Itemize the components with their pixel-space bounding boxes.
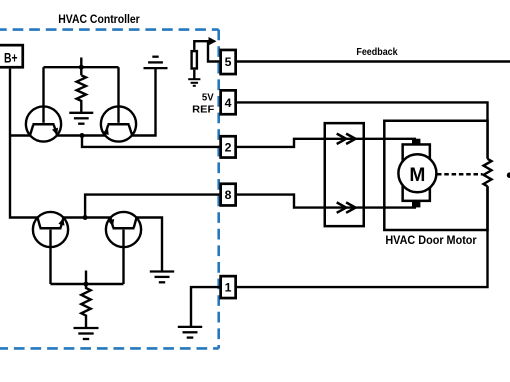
wire pin 2 to connector upper: [237, 139, 324, 147]
svg-text:REF: REF: [192, 104, 214, 115]
wire pin 8 to connector lower: [237, 195, 324, 208]
svg-text:4: 4: [225, 96, 232, 110]
wire R2 top to arrow: [194, 41, 211, 50]
wire Q4 emitter to ground G4: [137, 218, 163, 272]
node bottom rail junction: [84, 282, 89, 287]
wire Q1-Q2 emitter rail middle segment: [57, 134, 105, 136]
transistor Q2 (upper right): [101, 67, 136, 141]
potentiometer R3 (feedback position sensor): [484, 159, 492, 186]
pin 2: [221, 136, 236, 157]
node wiper stub at edge: [507, 172, 510, 178]
transistor Q4 (lower right): [106, 212, 141, 284]
HVAC Door Motor outer box: [384, 121, 487, 230]
resistor R4 (base pull-down): [81, 284, 90, 328]
wire B+ rail down-left and to lower transistors: [10, 69, 38, 218]
wire lower rail between Q3 and Q4: [64, 216, 111, 218]
wire potentiometer bottom to pin 1: [237, 186, 488, 287]
wire junction to pin 2: [82, 136, 219, 147]
ground G5 under R4: [74, 328, 99, 339]
wire Feedback line: [237, 60, 510, 62]
node lower rail junction: [83, 215, 88, 220]
resistor R1 (base bleed resistor): [77, 75, 86, 113]
wire B+ branch to Q1 emitter-collector rail: [10, 134, 30, 136]
node emitter-rail junction to pin 2: [80, 133, 85, 138]
pin 4: [221, 90, 236, 114]
wire through connector upper: [324, 138, 417, 140]
wire 5V REF to potentiometer top: [237, 102, 488, 158]
pin 8: [221, 184, 236, 206]
ground G6: [178, 327, 202, 338]
ground G1 under R1: [69, 113, 93, 124]
B+ supply box: [0, 45, 23, 67]
motor M1 body: [398, 139, 436, 208]
chevrons upper: [337, 134, 356, 144]
wire arrow branch down to pin 5: [208, 41, 219, 61]
wire pin 1 to ground G6: [191, 287, 219, 327]
svg-text:HVAC Controller: HVAC Controller: [58, 12, 140, 26]
svg-text:M: M: [409, 164, 425, 186]
svg-text:2: 2: [225, 140, 232, 154]
wire Q3-Q4 base bottom rail: [51, 283, 124, 285]
svg-text:1: 1: [225, 281, 232, 295]
wire pin 8 branch inside controller: [85, 195, 219, 218]
ground G3 (small) under R2: [193, 70, 195, 80]
pin 1: [221, 276, 236, 298]
ground G2 (inverted, above wire): [144, 57, 168, 68]
svg-text:5V: 5V: [202, 93, 214, 104]
wire stub above bottom junction: [85, 271, 87, 285]
connector U1 (harness symbol): [325, 123, 364, 226]
svg-text:8: 8: [225, 188, 232, 202]
node base-rail junction: [79, 65, 84, 70]
svg-text:B+: B+: [4, 49, 18, 65]
ground G4: [150, 272, 174, 283]
arrow head feedback direction: [209, 37, 217, 45]
svg-text:5: 5: [225, 55, 232, 69]
wire Q2 collector to raised ground: [132, 68, 155, 135]
wire top base rail between Q1 and Q2: [44, 66, 119, 68]
wire mechanical link motor to wiper (dashed): [437, 173, 483, 176]
resistor R2 (feedback pull-down, box style): [192, 51, 197, 68]
pin 5: [221, 50, 236, 74]
transistor Q1 (upper left): [26, 67, 61, 141]
transistor Q3 (lower left): [33, 212, 68, 284]
svg-text:HVAC Door Motor: HVAC Door Motor: [385, 233, 477, 247]
HVAC Controller dashed boundary box: [0, 30, 219, 349]
wire through connector lower: [324, 206, 417, 208]
wire stub above junction: [80, 58, 82, 76]
svg-text:Feedback: Feedback: [356, 47, 397, 58]
chevrons lower: [337, 202, 356, 212]
